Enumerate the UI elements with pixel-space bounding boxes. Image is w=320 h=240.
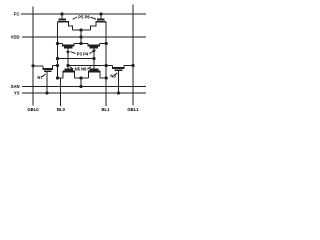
transistor P5 — [58, 14, 73, 30]
leader N5 N6 label right — [88, 67, 92, 69]
leader N5 N6 label left — [70, 67, 73, 69]
junction node L - cross wire — [56, 57, 59, 60]
svg-text:YS: YS — [14, 91, 20, 96]
junction GBL0 - N7 — [31, 64, 34, 67]
svg-text:SAN: SAN — [11, 84, 20, 89]
junction P4 gate - cross wire — [92, 57, 95, 60]
transistor P6 — [91, 14, 107, 30]
transistor N5 — [63, 66, 76, 79]
transistor N8 — [112, 66, 125, 94]
junction node R - P4 wire — [105, 42, 108, 45]
svg-text:N8: N8 — [110, 74, 116, 79]
junction node L - N bus — [56, 76, 59, 79]
leader N7 label — [43, 74, 46, 77]
wire BL0 lower segment — [60, 78, 62, 106]
junction node L - P3 wire — [56, 42, 59, 45]
wire VDD rail — [22, 36, 146, 38]
svg-text:FC: FC — [14, 12, 20, 17]
wire N5-N6 common source bus — [75, 77, 89, 79]
svg-text:VDD: VDD — [11, 35, 20, 40]
junction VDD tap — [79, 35, 82, 38]
leader P3 P4 label left — [71, 52, 76, 54]
wire N8 to GBL1 — [124, 65, 133, 67]
wire P5-P6 common drain bus — [73, 29, 91, 31]
arrow P4 gate — [92, 50, 96, 54]
junction YS - N8 gate — [117, 91, 120, 94]
svg-text:BL0: BL0 — [57, 107, 66, 112]
junction node L - N7 wire — [56, 64, 59, 67]
wire node L to P3 — [58, 43, 63, 45]
junction YS - N7 gate — [45, 91, 48, 94]
arrow P3 gate — [66, 51, 70, 55]
wire SAN tap — [80, 78, 82, 87]
junction GBL1 - N8 — [131, 64, 134, 67]
svg-text:GBL0: GBL0 — [27, 107, 39, 112]
wire cross-couple node R — [68, 65, 113, 67]
wire YS rail — [22, 92, 146, 94]
transistor N6 — [88, 70, 101, 79]
wire FC rail — [21, 13, 146, 15]
junction FC-P5 — [60, 12, 63, 15]
svg-text:N5 N6: N5 N6 — [75, 67, 88, 72]
wire N7 to node L — [53, 65, 58, 67]
svg-text:P3 P4: P3 P4 — [77, 52, 89, 57]
junction node R - N bus — [105, 76, 108, 79]
transistor P4 — [88, 44, 101, 70]
leader N8 label — [115, 73, 118, 76]
leader P3 P4 label right — [90, 52, 93, 54]
junction P source - VDD tap — [79, 42, 82, 45]
junction SAN tap — [79, 85, 82, 88]
svg-text:GBL1: GBL1 — [127, 107, 139, 112]
wire VDD tap upper — [80, 30, 82, 44]
wire SAN rail — [22, 86, 146, 88]
wire N5 source bus left — [58, 77, 64, 79]
wire P4 to node R — [100, 43, 107, 45]
node BL0 (node L vertical) — [57, 22, 59, 78]
junction FC-P6 — [99, 12, 102, 15]
leader P5 P6 label left — [73, 17, 78, 19]
wire GBL0 line — [32, 7, 34, 106]
node BL1 (node R vertical) — [105, 22, 107, 106]
wire cross-couple node L — [58, 58, 95, 60]
wire N6 source bus right — [100, 77, 106, 79]
junction P3 gate - cross wire — [66, 64, 69, 67]
wire GBL1 line — [132, 5, 134, 106]
junction N bus - SAN tap — [79, 76, 82, 79]
transistor N7 — [33, 66, 53, 94]
junction drain bus - VDD tap — [79, 28, 82, 31]
transistor P3 — [62, 44, 75, 66]
svg-text:P5 P6: P5 P6 — [78, 15, 90, 20]
svg-text:BL1: BL1 — [102, 107, 111, 112]
junction node R - cross wire — [105, 64, 108, 67]
wire P3 to P4 common source — [74, 43, 88, 45]
svg-text:N7: N7 — [37, 75, 43, 80]
leader P5 P6 label right — [91, 17, 97, 19]
